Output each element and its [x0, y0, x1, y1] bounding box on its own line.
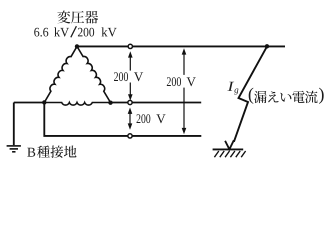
- value label: 200 V (middle to bottom): [137, 114, 151, 123]
- junction dot: delta apex to top line: [75, 44, 79, 48]
- leakage current zigzag path: [234, 46, 267, 141]
- value label: 200 V (top to middle): [114, 72, 128, 81]
- wire: earth drop on far left: [13, 103, 15, 146]
- transformer T1 delta winding: bottom coil: [44, 103, 110, 106]
- transformer T1 ratio label 6.6 kV/200 kV: [34, 28, 48, 37]
- node: open terminal on bottom line: [128, 134, 132, 138]
- wire: riser and bottom phase line: [44, 103, 201, 136]
- wire: top phase line: [77, 45, 285, 47]
- dimension arrow: 200 V between top and middle lines: [129, 57, 131, 96]
- junction dot: delta bottom-right vertex: [108, 101, 112, 105]
- wire: middle phase line right section: [111, 102, 202, 104]
- junction dot: leakage tap on top line: [265, 44, 269, 48]
- label: B種接地: [27, 148, 35, 157]
- junction dot: delta bottom-left vertex: [42, 100, 46, 104]
- transformer T1 delta winding: left coil: [44, 46, 77, 102]
- leakage arrowhead (open chevron): [225, 140, 234, 149]
- current label: Ig: [227, 82, 234, 91]
- label: (漏えい電流) leakage current: [249, 88, 254, 104]
- transformer T1 name label 変圧器: [57, 11, 98, 24]
- transformer T1 delta winding: right coil: [77, 46, 111, 102]
- ground: hatched earth under leakage arrow: [213, 148, 244, 150]
- dimension arrow: 200 V between middle and bottom lines: [129, 113, 131, 125]
- node: open terminal on top line: [128, 44, 132, 48]
- node: open terminal on middle line: [128, 100, 132, 104]
- ground: class-B earth symbol: [7, 146, 21, 152]
- dimension arrow: 200 V between top and bottom lines: [183, 54, 185, 130]
- wire: middle phase line left section to earth tap corner: [14, 102, 45, 104]
- value label: 200 V (top to bottom): [167, 77, 181, 86]
